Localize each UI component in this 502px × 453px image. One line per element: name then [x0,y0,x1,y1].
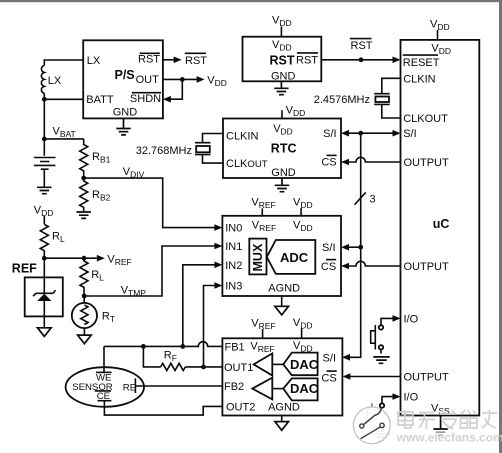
junction at BATT tap [42,97,47,102]
svg-text:S/I: S/I [403,128,416,140]
junction IN3 riser on OUT1 [201,365,206,370]
wire AGND to ground (ADC) [281,296,283,306]
node at REF top [42,256,47,261]
pushbutton SW1 contacts [379,325,383,329]
watermark logo diagonal stroke [361,427,380,439]
thermistor R_T [83,296,85,303]
wire R_T to ground [83,328,85,335]
svg-text:ADC: ADC [280,250,309,265]
svg-text:SHDN: SHDN [130,93,161,105]
ground (battery) [37,187,51,193]
watermark char 4 [461,410,478,428]
resistor R_L (upper) [40,224,48,258]
watermark char 2 [419,413,435,430]
right gray border bar [499,0,502,453]
arrow into uC RESET [393,57,401,64]
arrow terminal V_REF [97,255,105,262]
wire crystal to CLKOUT [203,155,224,164]
analog ground triangle (ADC) [275,306,289,315]
svg-text:RST: RST [296,54,318,66]
svg-text:RE: RE [123,382,136,393]
svg-text:AGND: AGND [268,401,300,413]
svg-text:DAC: DAC [290,381,319,396]
analog ground triangle (REF) [38,328,52,337]
zener diode (REF) [37,294,51,301]
svg-text:P/S: P/S [115,68,135,82]
wire CLKIN to crystal [203,134,224,143]
wire AGND to ground (DAC) [281,416,283,422]
junction on RESET wire [359,57,364,62]
svg-text:IN2: IN2 [225,260,242,272]
wire uC CLKIN to crystal [382,78,401,93]
svg-text:S/I: S/I [322,242,335,254]
resistor R_L (lower) [80,258,88,296]
crystal Y1 (32.768MHz) [195,143,211,155]
analog ground triangle (DAC) [275,422,289,431]
ground (R_B2) [77,212,91,218]
svg-text:DAC: DAC [290,357,319,372]
arrow into IN1 [214,243,222,250]
arrow into uC I/O (1) [393,315,401,322]
multiplexer MUX [249,239,266,275]
wire RE to FB2 [135,385,222,387]
pushbutton SW2 lower contact and ground (faint) [374,428,390,441]
svg-text:GND: GND [271,71,296,83]
DAC1 converter flag shape [283,353,317,376]
wire RST out of P/S [163,59,174,61]
ground (pushbutton 1) [373,357,390,363]
svg-text:S/I: S/I [323,128,336,140]
wire uC I/O to pushbutton 2 [382,397,393,404]
wire IN2 riser [183,265,215,347]
svg-text:IN3: IN3 [225,280,242,292]
svg-text:S/I: S/I [323,353,336,365]
junction IN2 riser on FB1 [180,344,185,349]
svg-text:CLKOUT: CLKOUT [226,158,268,170]
svg-text:LX: LX [48,75,62,87]
battery B1 [34,139,56,187]
svg-text:RST: RST [351,40,373,52]
svg-text:CLKOUT: CLKOUT [403,113,448,125]
op-amp buffer A2 [252,378,272,400]
wire into REF [43,258,45,293]
watermark char 1 [398,410,413,428]
junction above R_L lower [82,256,87,261]
watermark logo small circle left [360,424,364,428]
wire uC OUTPUT to ADC CS (with hop) [349,261,401,266]
arrow into ADC CS [341,263,349,270]
svg-text:www.elecfans.com: www.elecfans.com [396,431,502,445]
arrow into SHDN [163,96,171,103]
wire bus to ADC S/I [349,246,361,248]
top gray border bar [0,0,502,2]
wire zener to ground [43,301,45,328]
arrow into uC S/I [393,130,401,137]
svg-text:GND: GND [271,167,296,179]
resistor R_F [161,363,186,370]
svg-text:OUT2: OUT2 [226,401,255,413]
arrow into DAC S/I [342,354,350,361]
svg-text:REF: REF [12,261,37,275]
resistor R_B1 [80,139,88,178]
arrow into RTC CS [341,159,349,166]
ground (RTC GND) [275,178,289,192]
junction on OUT wire [180,77,185,82]
op-amp buffer A1 [254,353,273,375]
svg-text:I/O: I/O [404,392,419,404]
node V_DIV [81,176,86,181]
junction on S/I bus at ADC [358,245,363,250]
svg-text:OUTPUT: OUTPUT [404,157,450,169]
wire OUT to V_DD [163,78,197,80]
svg-text:OUTPUT: OUTPUT [404,261,450,273]
watermark char 5 [482,410,498,428]
ground (V_SS) [433,416,447,430]
wire pushbutton 1 to ground [380,350,382,354]
svg-text:RST: RST [270,53,295,67]
pushbutton SW2 top contact [380,403,384,407]
analog ground triangle (R_T) [78,335,92,344]
svg-text:CLKIN: CLKIN [403,73,435,85]
arrow into RTC S/I [341,130,349,137]
RTC block box [223,119,341,179]
watermark char 3 [440,410,456,429]
svg-text:LX: LX [87,55,101,67]
wire V_DIV to ADC IN0 [84,178,215,228]
uC block box [401,40,480,416]
svg-text:CS: CS [321,372,336,384]
wire R_F right lead / OUT1 net [185,366,222,368]
resistor R_B2 [80,178,88,212]
bus width slash [355,192,366,204]
wire RTC S/I to uC S/I [349,132,393,134]
wire IN3 riser [204,286,215,367]
pushbutton SW1 actuator [371,325,376,350]
svg-text:RST: RST [185,55,207,67]
svg-text:OUT: OUT [136,74,160,86]
DAC2 converter flag shape [283,378,317,400]
svg-text:RTC: RTC [271,142,297,156]
svg-text:RESET: RESET [403,57,440,69]
svg-text:FB1: FB1 [225,341,245,353]
arrow into uC I/O (2) [393,393,401,400]
wire inductor to BATT pin [44,93,83,139]
svg-text:IN1: IN1 [225,241,242,253]
P/S block box [83,40,163,118]
svg-text:CS: CS [321,157,336,169]
ground (P/S GND) [116,118,130,134]
node V_TMP [82,294,87,299]
arrow terminal V_DD [197,76,205,83]
svg-text:GND: GND [113,106,138,118]
arrow into DAC CS [342,373,350,380]
wire uC OUTPUT to DAC CS [350,376,400,378]
inductor LX [41,66,44,94]
pushbutton SW2 actuator remnant [371,403,373,407]
junction S/I bus [358,131,363,136]
arrow terminal RST [174,57,182,64]
wire crystal to uC CLKOUT [382,104,401,118]
svg-text:CLKIN: CLKIN [226,130,258,142]
ADC block box [222,216,341,296]
watermark logo lever stroke [364,408,381,425]
svg-text:FB2: FB2 [224,381,244,393]
svg-text:32.768MHz: 32.768MHz [136,145,192,157]
svg-text:IN0: IN0 [225,222,242,234]
svg-text:BATT: BATT [86,94,114,106]
wire WE to FB1 net [103,346,105,372]
wire A2 to DAC2 [272,388,283,390]
wire V_BAT to divider [44,138,83,140]
arrow into IN2 [214,262,222,269]
electrochemical SENSOR ellipse [66,367,144,407]
REF block box [25,277,63,316]
RST block box [243,37,322,82]
wire FB1 net (with hop over IN3 riser) [104,342,222,347]
wire CE to OUT2 [104,401,222,415]
ground (RST GND) [274,81,288,94]
wire uC I/O to pushbutton 1 [381,318,393,325]
wire OUT junction to SHDN [171,79,183,99]
arrow into IN3 [214,282,222,289]
svg-text:uC: uC [433,217,450,231]
wire V_TMP to ADC IN1 [84,246,214,296]
svg-text:AGND: AGND [268,283,300,295]
svg-text:CS: CS [321,261,336,273]
svg-text:OUT1: OUT1 [224,362,253,374]
watermark logo small circle right [380,423,384,427]
arrow into IN0 [214,224,222,231]
wire to V_REF arrow [44,257,97,259]
arrow into ADC S/I [341,244,349,251]
svg-text:OUTPUT: OUTPUT [404,372,450,384]
svg-text:RST: RST [138,54,160,66]
wire uC OUTPUT to RTC CS (with hop) [349,157,401,162]
junction R_F tap on FB1 [141,344,146,349]
wire R_F left lead [143,346,160,367]
wire LX pin to inductor [44,60,83,66]
S/I serial bus vertical [350,133,361,357]
svg-text:I/O: I/O [404,313,419,325]
wire A1 to DAC1 [272,363,283,365]
svg-text:2.4576MHz: 2.4576MHz [314,94,370,106]
wire RST to uC RESET [321,59,392,61]
DAC block box [222,338,342,415]
ADC converter flag shape [267,240,316,274]
svg-text:MUX: MUX [251,243,265,271]
svg-text:3: 3 [370,193,376,205]
crystal Y2 (2.4576MHz) [374,94,390,105]
node V_BAT [42,137,47,142]
